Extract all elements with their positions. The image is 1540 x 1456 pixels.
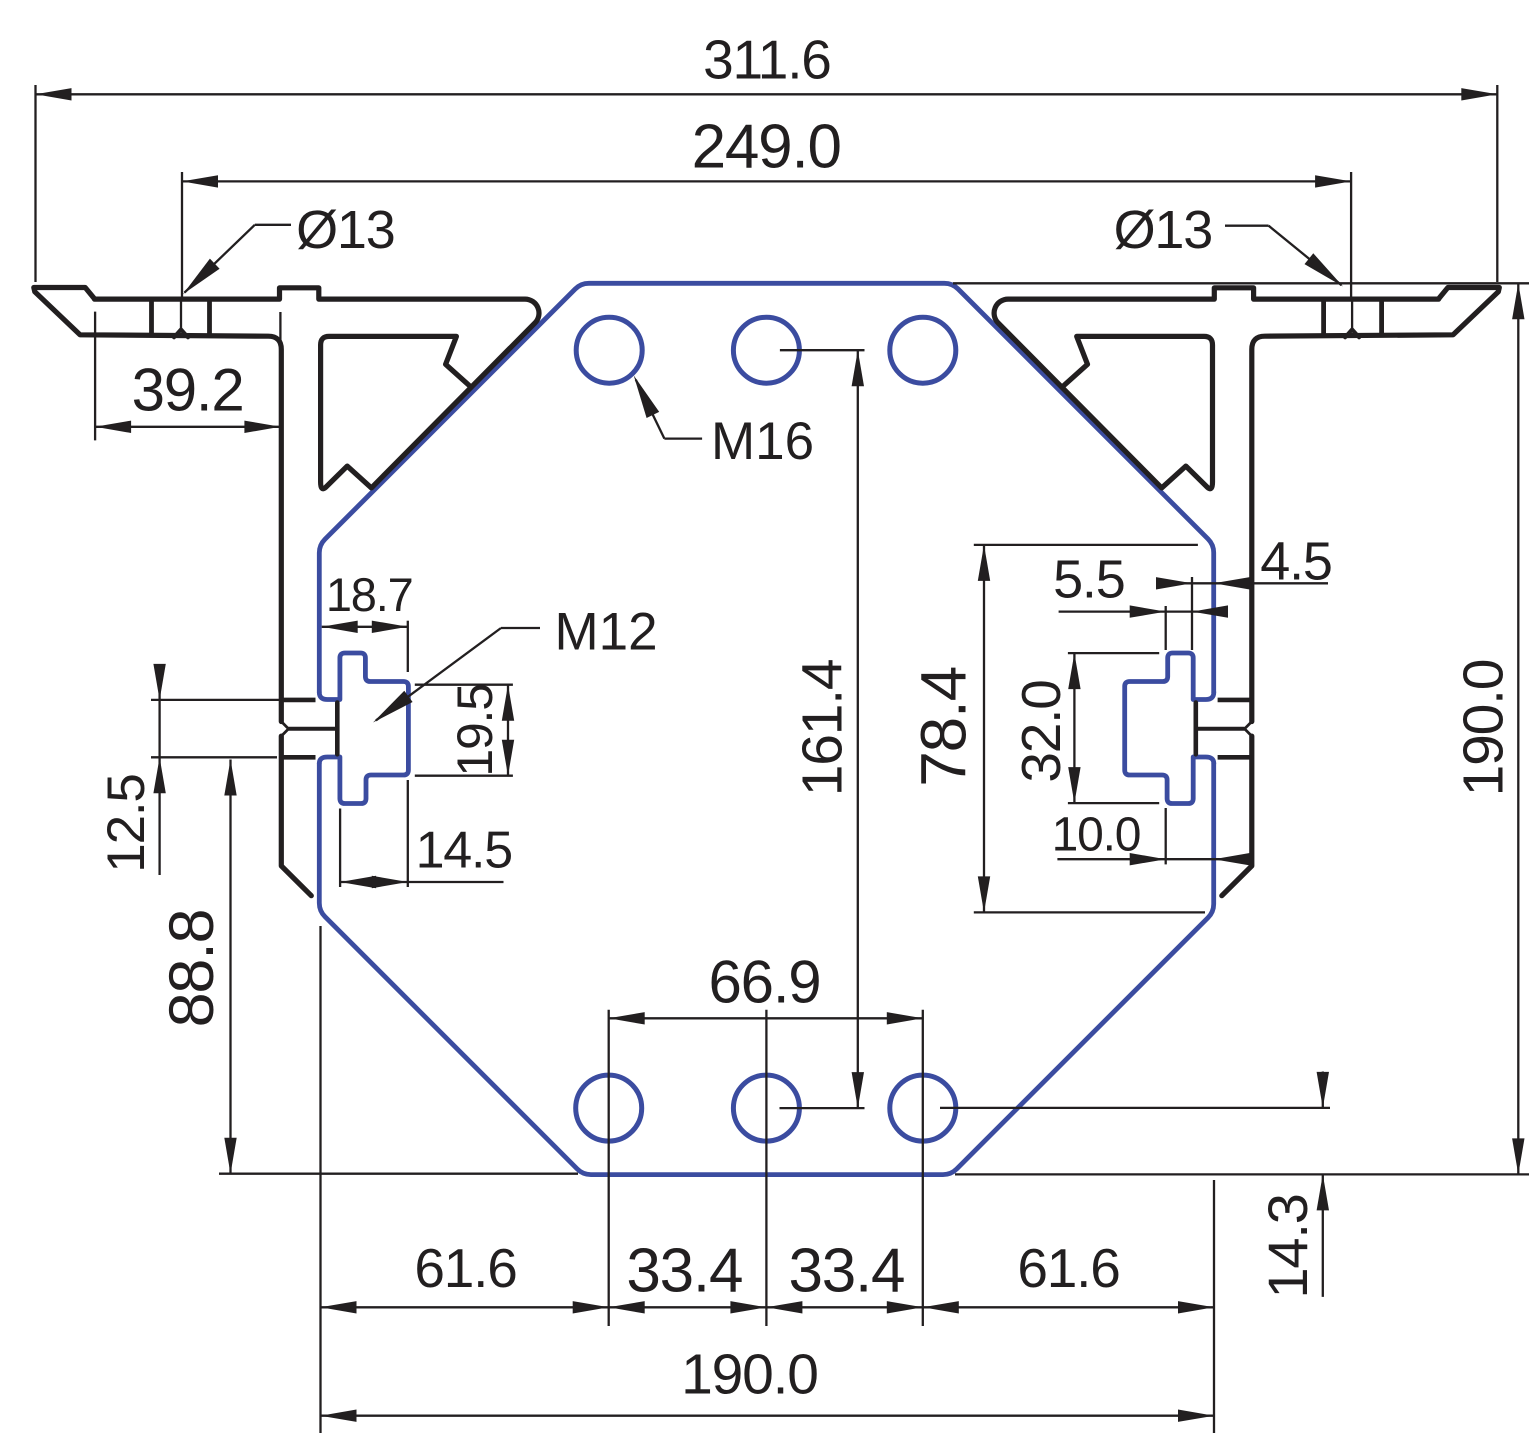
svg-text:33.4: 33.4 [626,1237,742,1306]
black right wing tip and underside to wall [1252,288,1500,722]
dimension 14.5 text [416,822,512,880]
black right wing slot mid line [1196,727,1245,731]
dimension 19.5 line and arrows [502,685,514,776]
svg-text:32.0: 32.0 [1010,680,1072,782]
blue profile octagon right edge gap segments + T-slot right (M12 slot) [1125,653,1214,804]
black left flange hole bottom chevron [174,330,188,338]
blue circle M16 hole top-right [890,317,956,383]
dimension 14.3 line and outside arrows [1317,1072,1329,1297]
dimension 39.2 line and arrows [95,421,280,433]
dimension 33.4 left text [626,1237,742,1306]
dimension 161.4 line and arrows [852,350,864,1108]
blue circle M16 hole top-middle [733,317,799,383]
svg-text:M16: M16 [711,412,814,471]
dimension 18.7 line and arrows [322,621,408,633]
label Ø13 right text [1114,200,1212,260]
blue T-slot left (M12 slot) [319,653,408,804]
dimension 19.5 extension lines [415,685,513,776]
dimension 161.4 connector lines [780,350,865,1108]
svg-text:190.0: 190.0 [1452,660,1516,797]
dimension 33.4 right line and arrows [766,1301,922,1313]
dimension 19.5 text [447,684,503,777]
dimension 249.0 line and arrows [182,175,1351,187]
dimension 190.0 bottom extension lines [321,926,1215,1433]
dimension 66.9 text [709,949,821,1016]
dimension 61.6 right line and arrows [923,1301,1214,1313]
blue circle M16 hole bottom-right [890,1075,956,1141]
dimension 4.5 text [1260,532,1331,592]
black right wing wall chevron notch [1245,722,1252,737]
dimension 66.9 line and arrows [609,1012,923,1024]
black left wing slot lip bottom [281,755,315,760]
dimension 249.0 extension lines [182,172,1351,297]
svg-text:18.7: 18.7 [326,568,413,621]
label Ø13 left text [296,200,394,260]
dimension 190.0 right line and arrows [1512,283,1524,1174]
dimension 5.5 text [1053,550,1124,610]
dimension 12.5 text [97,774,156,872]
dimension 14.5 line, arrows and tail [340,876,503,888]
dimension 39.2 extension lines [95,312,280,441]
dimension 5.5 line, outside arrows and tail [1059,605,1228,617]
dimension 14.3 extension line [940,1107,1330,1109]
black right flange hole center line [1351,299,1353,330]
black left wing top surface with bump, corner and diagonal gusset [95,288,540,489]
dimension 311.6 text [703,29,831,91]
dimension 88.8 line and arrows [224,760,236,1174]
black left flange hole center line [180,299,182,330]
extension line bottom-left circle [608,1010,610,1326]
black left wing slot lip top [281,698,315,703]
label M16 leader [634,375,702,438]
black right wing top surface with bump, corner and diagonal gusset [994,288,1439,489]
black right wing slot inner wall [1194,703,1199,755]
black left wing slot mid line [289,727,338,731]
blue profile octagon top half outline [319,283,1213,692]
svg-text:M12: M12 [555,603,658,662]
blue circle M16 hole top-left [576,317,642,383]
label Ø13 right leader [1225,226,1343,287]
black right flange hole bottom chevron [1345,330,1359,338]
label M16 text [711,412,814,471]
svg-text:190.0: 190.0 [681,1343,818,1407]
dimension 10.0 extension line [1165,808,1167,864]
dimension 39.2 text [132,357,244,424]
dimension 61.6 left line and arrows [321,1301,609,1313]
dimension 61.6 left text [414,1237,516,1299]
svg-text:14.5: 14.5 [416,822,512,880]
extension line bottom-middle circle [765,1010,767,1326]
dimension 61.6 right text [1017,1237,1119,1299]
dimension 32.0 text [1010,680,1072,782]
dimension 190.0 right extension lines [953,283,1529,1174]
dimension 161.4 text [790,659,854,796]
svg-text:78.4: 78.4 [908,667,980,787]
black right flange hole wall right (Ø13) [1379,301,1384,334]
black left flange hole wall right (Ø13) [207,301,212,334]
svg-text:5.5: 5.5 [1053,550,1124,610]
dimension 18.7 extension line [407,621,409,672]
svg-text:Ø13: Ø13 [296,200,394,260]
svg-text:61.6: 61.6 [1017,1237,1119,1299]
black left flange hole wall left (Ø13) [149,301,154,334]
dimension 88.8 bottom extension line [219,1173,578,1175]
dimension 249.0 text [692,113,841,182]
svg-text:66.9: 66.9 [709,949,821,1016]
svg-text:19.5: 19.5 [447,684,503,777]
label Ø13 left leader [183,225,291,294]
dimension 10.0 text [1052,809,1141,862]
svg-text:14.3: 14.3 [1256,1194,1319,1298]
blue circle M16 hole bottom-left [576,1075,642,1141]
svg-text:12.5: 12.5 [97,774,156,872]
black left wing tip and underside to wall [34,288,281,722]
dimension 311.6 extension lines [36,85,1498,282]
svg-text:33.4: 33.4 [788,1237,904,1306]
dimension 32.0 line and arrows [1068,653,1080,803]
dimension 10.0 line, outside arrows and tail [1057,853,1250,865]
dimension 33.4 left line and arrows [609,1301,767,1313]
svg-text:10.0: 10.0 [1052,809,1141,862]
dimension 12.5 extension lines [151,700,281,757]
dimension 5.5 extension lines [1166,577,1192,650]
dimension 4.5 line, outside arrows and tail [1156,577,1328,589]
black right wing slot lip bottom [1218,755,1252,760]
dimension 190.0 bottom line and arrows [321,1410,1215,1422]
blue profile octagon bottom half outline [319,764,1213,1175]
blue circle M16 hole bottom-middle [733,1075,799,1141]
dimension 78.4 extension lines [974,545,1205,913]
dimension 32.0 extension lines [1068,653,1159,803]
label M12 text [555,603,658,662]
dimension 78.4 text [908,667,980,787]
svg-text:311.6: 311.6 [703,29,831,91]
label M12 leader [373,628,540,723]
svg-text:88.8: 88.8 [157,910,227,1028]
dimension 14.3 text [1256,1194,1319,1298]
dimension 190.0 right text [1452,660,1516,797]
dimension 12.5 line and outside arrows [153,664,165,875]
dimension 311.6 line and arrows [36,88,1498,100]
svg-text:249.0: 249.0 [692,113,841,182]
black left wing slot inner wall [335,703,340,755]
dimension 18.7 text [326,568,413,621]
black left wing wall lower segment with chamfer [281,736,311,896]
svg-text:Ø13: Ø13 [1114,200,1212,260]
extension line bottom-right circle [922,1010,924,1326]
svg-text:61.6: 61.6 [414,1237,516,1299]
dimension 190.0 bottom text [681,1343,818,1407]
dimension 88.8 text [157,910,227,1028]
dimension 78.4 line and arrows [978,545,990,913]
svg-text:4.5: 4.5 [1260,532,1331,592]
black left wing wall chevron notch [281,722,288,737]
black right wing wall lower segment with chamfer [1222,736,1252,896]
black right flange hole wall left (Ø13) [1321,301,1326,334]
svg-text:161.4: 161.4 [790,659,854,796]
svg-text:39.2: 39.2 [132,357,244,424]
dimension 33.4 right text [788,1237,904,1306]
dimension 14.5 extension lines [340,780,408,887]
black right wing slot lip top [1218,698,1252,703]
